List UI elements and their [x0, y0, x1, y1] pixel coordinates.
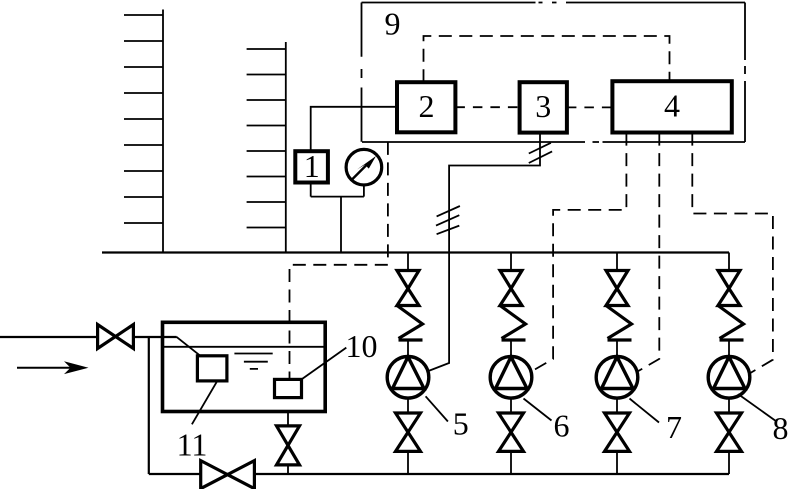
main suction valve — [201, 461, 255, 489]
dashed control wire box4 to pump6 — [531, 133, 626, 372]
riser comb 2 vertical — [285, 42, 287, 253]
svg-text:2: 2 — [419, 88, 435, 124]
wire — [407, 253, 409, 271]
riser comb 1 ticks — [124, 15, 163, 223]
dashed control wire box4 to pump8 — [692, 133, 773, 374]
top valve — [397, 271, 419, 289]
pump P7 — [596, 357, 638, 399]
svg-text:5: 5 — [453, 406, 469, 442]
leader 5 — [426, 396, 448, 421]
pressure gauge — [346, 149, 382, 185]
wire box1 to box2 — [311, 107, 397, 151]
leader 10 — [302, 348, 347, 380]
control cabinet boundary 9 (dash-dot box) — [362, 3, 746, 143]
water level line — [163, 346, 326, 348]
svg-text:8: 8 — [773, 410, 789, 446]
pressure sensor box 1 — [295, 151, 328, 182]
level sensor 10 box — [275, 379, 302, 397]
svg-text:7: 7 — [666, 409, 682, 445]
tank outlet pipe — [287, 412, 289, 475]
control box 4 — [612, 81, 731, 132]
header pipe — [102, 251, 729, 253]
inverter box 3 — [520, 82, 567, 132]
pump branch 6 — [490, 253, 532, 475]
2-wire slashes — [529, 143, 552, 163]
water tank — [163, 322, 326, 411]
inlet valve — [98, 325, 134, 349]
pump P6 — [490, 357, 532, 399]
dashed feedback loop box2 top to box4 top — [424, 36, 670, 82]
bottom valve — [396, 413, 421, 432]
dashed wire box3 to box4 — [567, 106, 613, 108]
suction pipe — [149, 473, 729, 475]
svg-text:3: 3 — [535, 88, 551, 124]
riser comb 2 ticks — [247, 49, 286, 228]
riser comb 1 vertical — [162, 10, 164, 253]
wire — [407, 398, 409, 413]
dashed control wire box4 to pump7 — [638, 133, 660, 372]
dashed sensor wire to tank level sensor 10 — [290, 142, 388, 380]
svg-text:11: 11 — [177, 427, 208, 463]
3-phase slashes — [436, 206, 460, 234]
leader 7 — [630, 399, 660, 423]
inlet pipe — [0, 336, 177, 338]
bypass pipe down — [148, 337, 150, 474]
float arm — [176, 337, 200, 356]
leader 11 — [192, 381, 217, 424]
pump P5 — [387, 357, 429, 399]
pump P8 — [708, 357, 750, 399]
tank outlet valve — [277, 426, 300, 465]
svg-text:4: 4 — [664, 88, 680, 124]
svg-text:6: 6 — [554, 408, 570, 444]
svg-text:10: 10 — [346, 328, 378, 364]
leader 8 — [738, 394, 775, 421]
dashed wire box2 to box3 — [455, 106, 519, 108]
svg-text:9: 9 — [385, 6, 401, 42]
flow arrow — [17, 361, 89, 374]
leader 6 — [524, 399, 552, 421]
wires under box1 and gauge to pipe — [311, 183, 364, 253]
controller box 2 — [397, 82, 455, 132]
pump branch 5 — [387, 253, 429, 475]
flex joint — [397, 306, 423, 339]
pump branch 8 — [708, 253, 750, 475]
pump branch 7 — [596, 253, 638, 475]
svg-text:1: 1 — [304, 148, 320, 184]
water surface marks — [234, 354, 272, 369]
solid control wire box3 to pump5 — [425, 133, 541, 373]
float valve 11 box — [197, 356, 227, 381]
